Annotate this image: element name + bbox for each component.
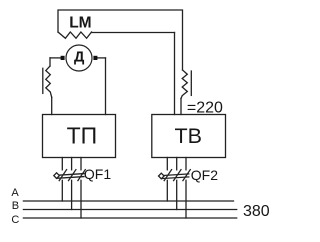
wire TP phase 3 upper xyxy=(80,158,82,170)
svg-text:Д: Д xyxy=(74,49,85,65)
breaker QF1 pole 2 slash xyxy=(69,170,76,181)
wire from L1 to TP xyxy=(51,97,53,114)
inductor L2 core line xyxy=(190,71,192,95)
wire motor left lead xyxy=(50,57,61,59)
wire TB phase 3 lower xyxy=(185,180,187,218)
breaker QF2 pole 1 slash xyxy=(164,170,171,181)
wire TB phase 3 upper xyxy=(185,158,187,170)
svg-text:ТП: ТП xyxy=(67,123,98,149)
svg-text:C: C xyxy=(11,214,19,226)
wire TP phase 2 upper xyxy=(71,158,73,170)
wire top loop (left vertical, top horizontal, right vertical) xyxy=(58,10,183,70)
breaker QF1 pole 3 slash xyxy=(78,170,85,181)
wire TB phase 1 upper xyxy=(166,158,168,170)
svg-text:A: A xyxy=(11,187,19,199)
svg-text:B: B xyxy=(12,200,19,212)
svg-text:=220: =220 xyxy=(187,100,223,117)
wire TP phase 1 upper xyxy=(61,158,63,170)
inductor L1 (left zigzag winding) xyxy=(46,66,52,97)
motor D circle xyxy=(66,45,92,71)
inductor LM (zigzag) xyxy=(58,32,92,38)
wire motor right lead xyxy=(97,57,105,59)
breaker QF1 linkage bar lower xyxy=(57,177,85,179)
wire TP phase 2 lower xyxy=(71,180,73,209)
inductor L1 core line xyxy=(42,68,44,93)
breaker QF1 handle diamond xyxy=(54,173,60,179)
wire motor left vertical xyxy=(49,58,51,66)
breaker QF2 linkage bar lower xyxy=(161,177,189,179)
breaker QF1 pole 1 slash xyxy=(59,170,66,181)
bus line C xyxy=(23,217,236,219)
svg-text:QF1: QF1 xyxy=(84,166,111,182)
wire motor right vertical to TP xyxy=(105,58,107,115)
wire TB phase 1 lower xyxy=(166,180,168,201)
wire TB phase 2 lower xyxy=(176,180,178,209)
wire from L2 to TB xyxy=(180,99,182,115)
breaker QF1 linkage bar upper xyxy=(57,174,85,176)
wire right inner vertical to TB xyxy=(174,33,176,115)
inductor L2 (right zigzag winding) xyxy=(181,70,187,99)
svg-text:LM: LM xyxy=(69,14,91,31)
wire TB phase 2 upper xyxy=(176,158,178,170)
exciter TB box xyxy=(152,115,226,158)
svg-text:QF2: QF2 xyxy=(191,167,218,183)
bus line A xyxy=(23,200,233,202)
svg-text:ТВ: ТВ xyxy=(174,124,201,148)
motor left terminal xyxy=(61,56,65,60)
wire TP phase 3 lower xyxy=(80,180,82,218)
converter TP box xyxy=(43,115,116,158)
breaker QF2 pole 3 slash xyxy=(183,170,190,181)
wire TP phase 1 lower xyxy=(61,180,63,201)
motor right terminal xyxy=(93,56,97,60)
bus line B xyxy=(23,209,236,211)
wire from LM to node right xyxy=(92,32,175,34)
svg-text:380: 380 xyxy=(243,203,270,220)
breaker QF2 pole 2 slash xyxy=(174,170,181,181)
breaker QF2 handle diamond xyxy=(159,173,165,179)
breaker QF2 linkage bar upper xyxy=(161,174,189,176)
